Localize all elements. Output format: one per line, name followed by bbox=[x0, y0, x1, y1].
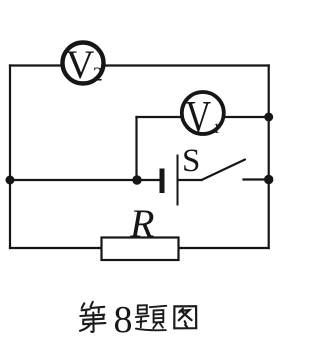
battery positive plate (long thin) bbox=[177, 155, 179, 206]
caption character tu (图) bbox=[174, 306, 196, 328]
wire V1 branch horizontal bbox=[137, 116, 181, 118]
wire battery to switch pivot bbox=[179, 179, 202, 181]
node junction left bbox=[6, 176, 15, 185]
wire switch contact segment bbox=[244, 178, 269, 180]
switch S blade bbox=[202, 160, 246, 181]
svg-text:V: V bbox=[66, 42, 95, 87]
svg-text:R: R bbox=[129, 201, 154, 246]
wire middle left segment bbox=[10, 179, 160, 181]
wire V1 right segment bbox=[226, 116, 269, 118]
caption character di (第) bbox=[80, 302, 105, 332]
resistor R box bbox=[102, 238, 179, 261]
wire left vertical bbox=[9, 66, 11, 249]
svg-text:2: 2 bbox=[93, 64, 103, 86]
wire bottom right segment bbox=[179, 247, 269, 249]
node junction V1 right bbox=[264, 113, 273, 122]
voltmeter V2 circle bbox=[63, 43, 104, 84]
wire top left segment bbox=[10, 64, 61, 66]
wire top right segment bbox=[106, 64, 269, 66]
wire bottom left segment bbox=[10, 247, 102, 249]
wire right vertical bbox=[268, 66, 270, 249]
svg-text:V: V bbox=[185, 92, 211, 142]
battery negative plate (short thick) bbox=[160, 169, 165, 194]
node junction switch right bbox=[264, 175, 273, 184]
svg-text:S: S bbox=[182, 143, 200, 179]
wire V1 branch vertical bbox=[135, 117, 137, 180]
caption character ti (题) bbox=[136, 305, 167, 330]
node junction battery branch bbox=[132, 175, 141, 184]
voltmeter V1 circle bbox=[182, 92, 224, 134]
svg-text:8: 8 bbox=[114, 299, 133, 338]
svg-text:1: 1 bbox=[213, 121, 221, 137]
